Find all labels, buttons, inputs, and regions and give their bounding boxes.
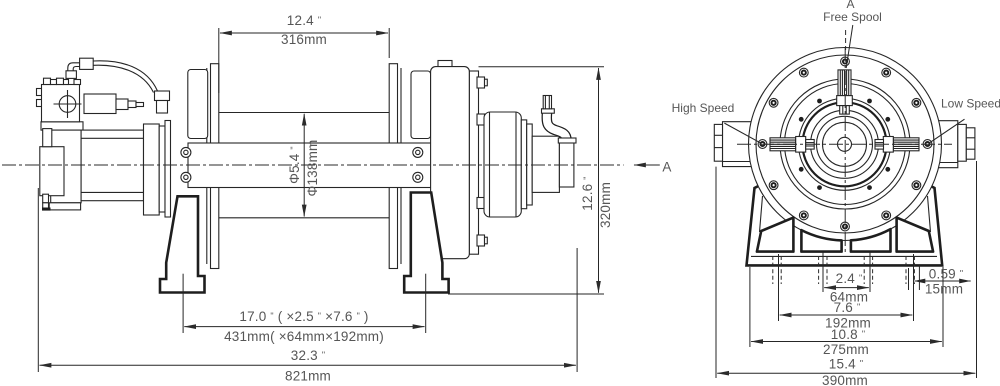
spline shaft right (low speed) xyxy=(875,137,919,153)
housing step circle xyxy=(756,55,934,233)
housing outer circle xyxy=(749,48,942,241)
dimension 15.4in 390mm xyxy=(716,161,977,386)
svg-text:320mm: 320mm xyxy=(598,182,613,228)
dimension 7.6in 192mm xyxy=(779,254,914,331)
bolt ring xyxy=(758,57,932,231)
bracket gusset lines xyxy=(724,119,964,143)
horizontal centerline xyxy=(737,143,952,145)
dimension 12.4in 316mm xyxy=(219,13,389,93)
dimension 2.4in 64mm xyxy=(823,253,870,305)
base window 3 xyxy=(851,229,891,252)
tie bar bolts left xyxy=(181,147,191,182)
gearbox top tab xyxy=(438,61,452,69)
clutch rings xyxy=(521,120,532,209)
svg-text:2.4 ": 2.4 " xyxy=(836,271,863,286)
mounting base xyxy=(747,170,943,265)
valve top fittings xyxy=(44,78,81,84)
tie bar bolts right xyxy=(413,147,423,182)
svg-text:High Speed: High Speed xyxy=(672,101,735,115)
hose base fitting xyxy=(66,71,76,79)
motor mid cylinder xyxy=(81,130,143,201)
dimension 32.3in 821mm xyxy=(38,188,577,384)
dimension 12.6in 320mm xyxy=(448,67,613,294)
svg-text:7.6 ": 7.6 " xyxy=(834,300,861,315)
svg-text:A: A xyxy=(662,160,671,175)
socket screws xyxy=(799,99,890,190)
motor adapter strips xyxy=(159,121,170,218)
svg-text:17.0 " ( ×2.5 " ×7.6 " ): 17.0 " ( ×2.5 " ×7.6 " ) xyxy=(239,309,368,324)
svg-text:12.4 ": 12.4 " xyxy=(287,13,321,28)
spline shaft left (high speed) xyxy=(770,137,814,153)
motor end tabs xyxy=(42,129,52,211)
dimension 0.59in 15mm xyxy=(909,265,971,297)
svg-text:821mm: 821mm xyxy=(285,369,331,384)
gearbox main plate xyxy=(431,67,470,259)
hose xyxy=(68,61,158,93)
end cap xyxy=(559,142,574,187)
base window 2 xyxy=(801,230,841,252)
svg-text:431mm( ×64mm×192mm): 431mm( ×64mm×192mm) xyxy=(224,329,384,344)
label A free spool xyxy=(823,0,882,68)
drum barrel xyxy=(219,113,389,218)
dimension dia 5.4in 138mm xyxy=(287,114,320,217)
drum flange left xyxy=(207,64,219,269)
gearbox edge bolts xyxy=(477,77,487,246)
base window 1 xyxy=(757,218,794,252)
svg-text:0.59 ": 0.59 " xyxy=(929,267,963,282)
dimension 17.0in 431mm xyxy=(183,274,426,344)
hose end fitting xyxy=(155,91,170,113)
motor shaft end cap xyxy=(40,147,64,196)
left tie-rod mount block xyxy=(188,70,208,139)
svg-text:Φ5.4 ": Φ5.4 " xyxy=(287,146,302,184)
vertical centerline xyxy=(844,48,846,252)
base window 4 xyxy=(897,218,934,252)
svg-text:Low Speed: Low Speed xyxy=(941,97,1000,111)
centerline left view xyxy=(2,164,624,166)
drum flange right xyxy=(389,64,401,269)
valve block xyxy=(37,85,82,122)
solenoid valve xyxy=(84,94,144,114)
svg-text:Free Spool: Free Spool xyxy=(823,10,882,24)
svg-text:10.8 ": 10.8 " xyxy=(831,327,865,342)
svg-text:15.4 ": 15.4 " xyxy=(829,357,863,372)
hose sleeve coupler xyxy=(80,58,94,69)
clutch drum xyxy=(484,112,521,217)
dimension 10.8in 275mm xyxy=(750,267,943,357)
motor front flange plate xyxy=(144,124,160,215)
base bolt hidden lines xyxy=(773,256,915,284)
right support leg xyxy=(404,193,448,293)
right mount bracket xyxy=(932,121,975,168)
spline shaft top (free spool) xyxy=(837,70,853,114)
section arrow A xyxy=(634,160,672,175)
motor rear housing xyxy=(51,130,81,203)
gearbox second plate xyxy=(469,71,478,254)
tie bar xyxy=(188,143,431,188)
left support leg xyxy=(160,196,205,292)
motor manifold plate xyxy=(41,122,83,130)
svg-text:12.6 ": 12.6 " xyxy=(580,176,595,210)
svg-text:32.3 ": 32.3 " xyxy=(291,348,325,363)
breather pipe xyxy=(542,96,577,144)
svg-text:275mm: 275mm xyxy=(823,342,869,357)
bearing rings xyxy=(780,79,910,209)
left mount bracket xyxy=(714,122,751,167)
brake cylinder xyxy=(532,136,559,192)
svg-text:390mm: 390mm xyxy=(822,373,868,386)
svg-text:15mm: 15mm xyxy=(925,282,963,297)
right tie-rod mount block xyxy=(411,71,431,139)
svg-text:316mm: 316mm xyxy=(281,32,327,47)
svg-text:Φ138mm: Φ138mm xyxy=(305,140,320,197)
